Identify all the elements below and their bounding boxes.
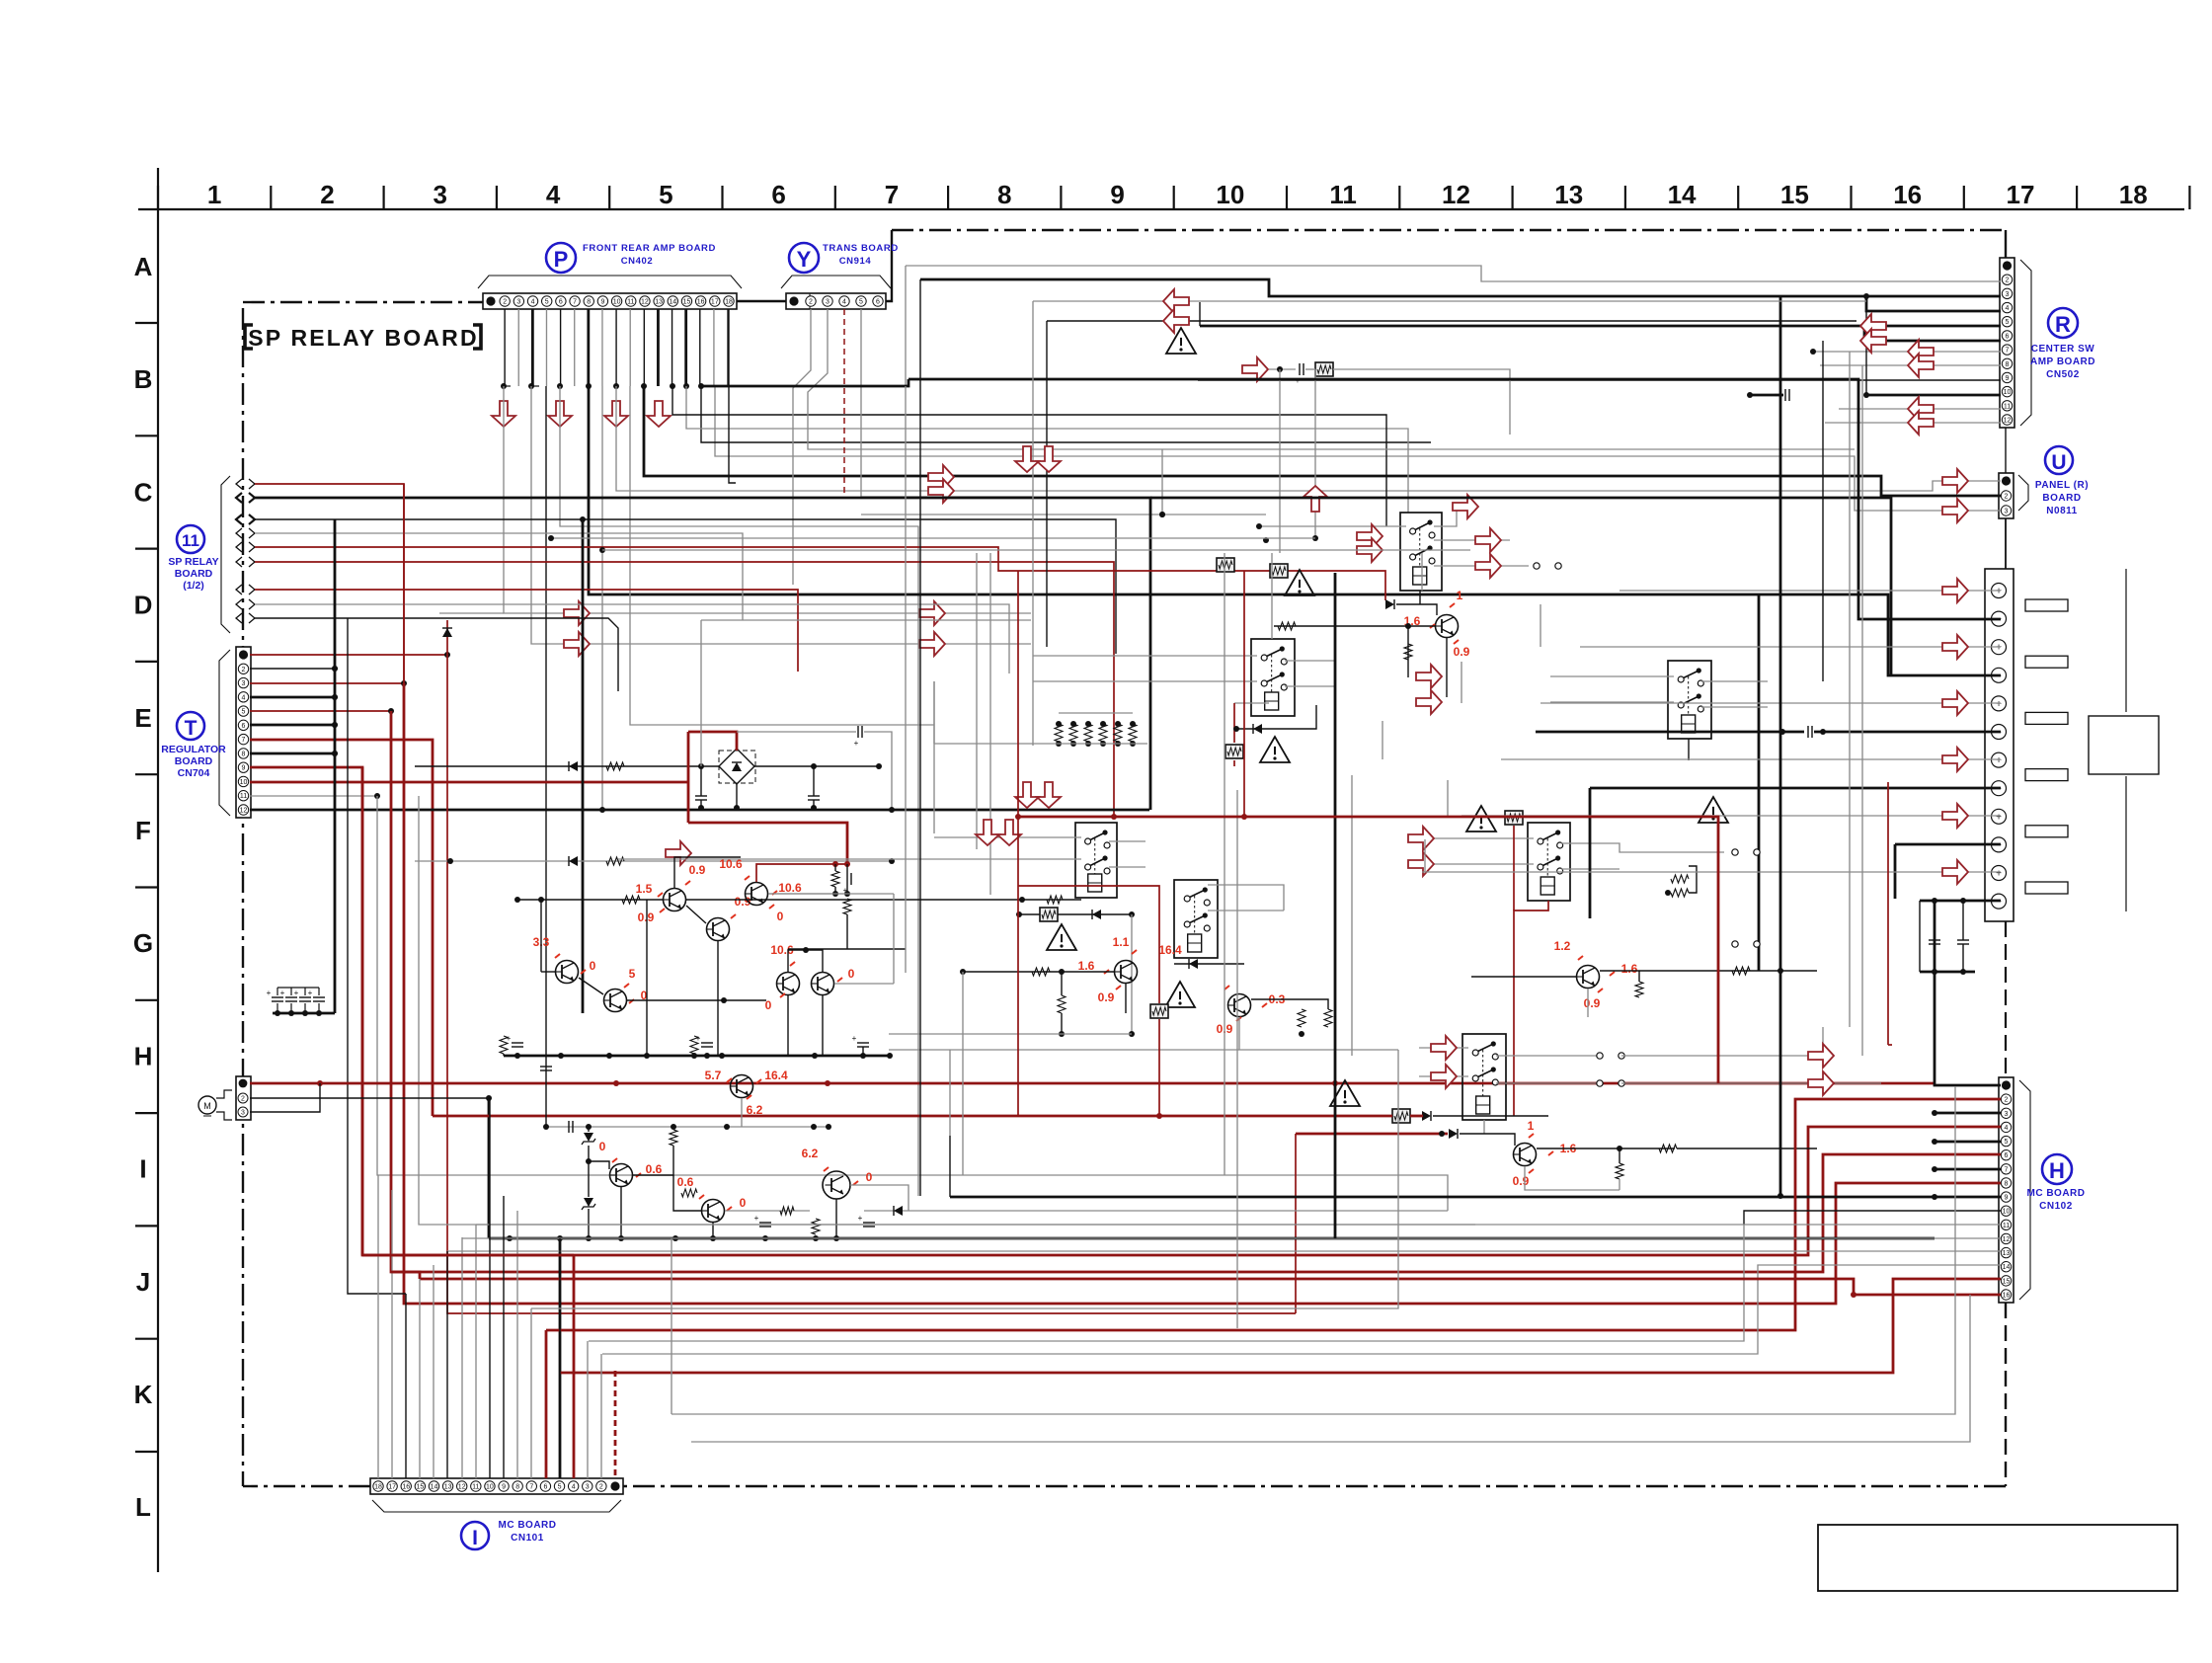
svg-text:SP RELAY: SP RELAY: [168, 556, 218, 568]
svg-text:7: 7: [885, 180, 899, 209]
wire cap R lead: [813, 766, 815, 796]
warn W2: [1166, 328, 1196, 354]
wire T pin4 thick: [250, 696, 335, 699]
wire R pin5 left: [1199, 302, 1201, 326]
svg-text:PANEL (R): PANEL (R): [2035, 480, 2089, 491]
svg-text:0: 0: [599, 1140, 606, 1153]
label U: [2045, 446, 2073, 474]
wire relayG in1: [1419, 1047, 1468, 1049]
diode D-LC: [894, 1206, 903, 1216]
wire cap bank tops: [277, 987, 319, 989]
svg-text:−: −: [1996, 840, 2002, 851]
wire I riser x411: [405, 1294, 407, 1478]
svg-text:1: 1: [1528, 1119, 1535, 1133]
wire cl q5 right: [627, 999, 766, 1001]
svg-text:+: +: [280, 989, 285, 997]
junction spk984: [1932, 969, 1966, 975]
junction T2: [332, 666, 338, 672]
wire vert x1060: [1046, 321, 1048, 647]
wire QG e2: [1619, 1179, 1620, 1190]
junction y827: [1015, 814, 1247, 820]
wire bus black y420: [672, 386, 1386, 526]
capacitor lc4: [863, 1222, 875, 1224]
wire vert x352: [348, 618, 406, 1294]
arrow right rlE1: [1408, 827, 1434, 850]
svg-text:6: 6: [242, 723, 246, 730]
junction M2: [486, 1095, 492, 1101]
resistor QB v: [1058, 995, 1066, 1013]
wire jog2: [532, 385, 539, 387]
svg-text:5: 5: [242, 709, 246, 716]
svg-text:A: A: [134, 252, 153, 281]
capacitor bridge L: [695, 795, 707, 797]
svg-text:−: −: [1996, 897, 2002, 908]
wire I riser x581: [573, 1255, 576, 1478]
svg-text:0: 0: [848, 967, 855, 981]
connector H CN102: [1999, 1077, 2014, 1303]
svg-text:10: 10: [613, 299, 621, 306]
oo pair G2: [1597, 1080, 1603, 1086]
wire H pin15 red: [560, 1279, 2001, 1373]
resistor QH col: [1732, 967, 1750, 975]
svg-text:2: 2: [2005, 494, 2009, 501]
arrow right SPKp6: [1942, 860, 1968, 884]
label 11: [177, 525, 204, 553]
wire bus gray y462: [715, 386, 2001, 511]
wire bus C-row gray: [504, 386, 1031, 613]
svg-text:REGULATOR: REGULATOR: [161, 744, 226, 755]
svg-text:9: 9: [242, 765, 246, 772]
wire QB emit: [1125, 984, 1127, 1013]
svg-text:17: 17: [711, 299, 719, 306]
arrow dd3: [976, 820, 999, 845]
svg-text:3: 3: [2005, 1111, 2009, 1118]
wire 11 pin8 gray: [255, 604, 1009, 673]
bridge rectifier: [719, 751, 755, 783]
wire R pin6 stub: [1863, 326, 1866, 341]
svg-text:0.9: 0.9: [1454, 645, 1470, 659]
wire I riser x496: [489, 1098, 491, 1478]
arrow right SPKp2: [1942, 635, 1968, 659]
arrow right rlA4: [1475, 528, 1501, 552]
junction res row bot: [1056, 741, 1136, 747]
svg-text:+: +: [267, 989, 272, 997]
wire lc q8 base: [589, 1161, 609, 1169]
wire bus gray y497: [616, 386, 2001, 491]
wire H pin14 gray: [602, 1265, 2001, 1354]
fusible FR3: [1225, 745, 1243, 758]
svg-text:5: 5: [558, 1484, 562, 1491]
svg-text:11: 11: [627, 299, 634, 306]
motor M and connector: [236, 1076, 251, 1120]
wire red x396: [391, 711, 2001, 1272]
wire relayE in1: [1412, 837, 1534, 839]
svg-text:1.6: 1.6: [1621, 962, 1638, 976]
svg-text:0.6: 0.6: [646, 1162, 663, 1176]
capacitor spk B: [1957, 939, 1969, 941]
wire I riser x524: [516, 1211, 518, 1478]
wire QA vert: [1407, 626, 1409, 677]
diode D-T1: [442, 628, 452, 637]
wire I riser x425: [419, 1279, 421, 1478]
wire cl q6q7 top: [788, 950, 823, 972]
junction lc top: [543, 1124, 831, 1130]
wire lc z1b: [588, 1146, 590, 1197]
svg-text:M: M: [203, 1101, 211, 1111]
board outline top-right: [892, 229, 2006, 231]
resistor lc4: [780, 1207, 794, 1215]
wire P pin4 drop: [531, 309, 534, 386]
svg-text:CN402: CN402: [621, 256, 654, 267]
svg-text:3: 3: [2006, 291, 2010, 298]
resistor clu1: [831, 871, 839, 887]
wire vert x946: [933, 681, 935, 833]
junction RD: [1665, 890, 1671, 896]
wire I riser x453: [446, 1251, 448, 1478]
wire T pin5 red: [250, 710, 391, 712]
junction res row top: [1056, 721, 1136, 727]
wire R pin12 gray: [1825, 422, 2001, 424]
wire red y1130: [433, 1115, 1392, 1118]
wire H pin13 gray: [447, 1250, 2001, 1252]
junction y926: [1016, 911, 1135, 917]
capacitor spk741: [1807, 726, 1809, 738]
junction x1959: [1932, 1110, 1937, 1200]
junction z: [586, 1158, 592, 1164]
wire spk p4 drop: [1382, 721, 1383, 759]
wire band y1432 gray: [671, 1086, 1955, 1414]
wire thick x495: [488, 1098, 491, 1238]
diode D-F2: [1092, 910, 1101, 919]
svg-text:13: 13: [655, 299, 663, 306]
wire red y1058: [1888, 1044, 1892, 1046]
svg-text:J: J: [136, 1267, 150, 1297]
svg-text:+: +: [1996, 587, 2002, 597]
diode D-row2: [569, 856, 578, 866]
svg-text:+: +: [308, 989, 313, 997]
svg-text:+: +: [1996, 643, 2002, 654]
svg-text:3: 3: [434, 180, 447, 209]
wire clu gray y905: [768, 893, 847, 895]
wire vert x367: [361, 767, 364, 1255]
wire I riser x553: [545, 1330, 548, 1478]
wire clu cap lead: [846, 864, 848, 873]
wire gray y521: [861, 514, 1266, 515]
relay RY-G: [1462, 1034, 1506, 1120]
svg-text:18: 18: [725, 299, 733, 306]
wire SPK m5b: [1888, 787, 2001, 790]
board outline U-SPK link: [2005, 513, 2007, 569]
wire I riser x510: [503, 1196, 505, 1478]
wire spk p3 drop: [1461, 662, 1462, 703]
board outline right-top drop: [2005, 230, 2007, 258]
arrow right g4: [919, 632, 945, 656]
wire R pin5 long: [1200, 325, 2001, 328]
transistor Q2: [707, 918, 730, 941]
fusible FR-B: [1217, 558, 1234, 572]
wire SPK m5 y798: [1590, 787, 1888, 790]
wire cl q7 down: [822, 995, 824, 1056]
wire lc z2b: [588, 1209, 590, 1238]
resistor row 6x: [1055, 724, 1063, 742]
svg-text:+: +: [852, 1034, 857, 1043]
svg-text:11: 11: [182, 531, 199, 550]
board outline P-Y link: [737, 300, 786, 302]
resistor lc1: [670, 1130, 677, 1146]
transistor Q9: [702, 1200, 725, 1223]
arrow left y325: [1163, 309, 1189, 333]
arrow right rlA2: [1357, 538, 1382, 562]
wire gray x1886: [1861, 365, 1863, 1056]
wire H pin10b: [1744, 1211, 2001, 1225]
label I: [461, 1522, 489, 1549]
fusible FR1: [1270, 564, 1288, 578]
diode D-F: [1189, 959, 1198, 969]
wire cl mid: [540, 900, 542, 972]
wire relayB in1: [1033, 655, 1257, 657]
junction T5: [388, 708, 394, 714]
junction H16: [1851, 1292, 1856, 1298]
wire band y1190: [377, 1174, 378, 1176]
wire P pin13 drop: [657, 309, 660, 386]
arrow right SPKp1: [1942, 579, 1968, 602]
svg-text:2: 2: [320, 180, 334, 209]
resistor bridge-in: [606, 762, 624, 770]
wire relayG out2: [1496, 1082, 1600, 1084]
svg-text:16: 16: [1893, 180, 1922, 209]
svg-text:2: 2: [242, 667, 246, 673]
wire QG feed red: [1296, 1133, 1448, 1136]
svg-text:15: 15: [416, 1484, 424, 1491]
wire red x1174b: [1096, 886, 1159, 1003]
junction T6: [332, 722, 338, 728]
wire P pin7 drop: [574, 309, 576, 386]
capacitor clb2: [701, 1042, 713, 1044]
arrow right rlD1: [1416, 665, 1442, 688]
zener Z2: [584, 1198, 593, 1207]
junction relayA: [1159, 512, 1262, 529]
wire 11 pin7 red: [255, 590, 798, 672]
capacitor clu1: [846, 873, 848, 885]
wire H pin3 stub: [1935, 1112, 2001, 1115]
wire SPK m3: [1150, 498, 1891, 675]
wire SPK m7 y912: [1920, 900, 2001, 903]
svg-text:3: 3: [826, 299, 829, 306]
wire R pin10 left: [1775, 394, 1783, 397]
svg-text:18: 18: [374, 1484, 382, 1491]
wire R vert x1890: [1865, 311, 1867, 395]
wire x567 thick: [559, 1238, 562, 1478]
wire relayE out2: [1561, 868, 1619, 870]
transistor Q8: [610, 1164, 633, 1187]
svg-text:P: P: [554, 247, 569, 272]
svg-text:L: L: [135, 1492, 151, 1522]
junction R10: [1747, 392, 1869, 398]
wire T pin11 gray: [250, 795, 377, 797]
wire relayC out2: [1109, 866, 1145, 868]
wire QA emitter: [1446, 638, 1448, 697]
wire cl q7 right: [834, 983, 894, 985]
wire R pin11 gray: [1839, 408, 2001, 410]
wire bridge topline2: [864, 732, 892, 808]
wire spk capB: [1962, 901, 1964, 940]
svg-text:1.1: 1.1: [1113, 935, 1130, 949]
resistor cl1: [622, 896, 640, 904]
wire SPK m1b: [908, 379, 2001, 619]
arrow left R7: [1908, 340, 1934, 363]
svg-text:+: +: [1996, 699, 2002, 710]
svg-text:CN101: CN101: [511, 1533, 544, 1544]
junction relayB diode: [1233, 726, 1239, 732]
svg-text:14: 14: [669, 299, 676, 306]
junction y911: [1019, 897, 1025, 903]
svg-text:0: 0: [866, 1170, 873, 1184]
svg-text:6: 6: [2005, 1152, 2009, 1159]
capacitor lc top: [568, 1121, 570, 1133]
wire QG feed red vert: [1295, 1134, 1297, 1313]
junction QG feed: [1439, 1131, 1445, 1137]
svg-text:U: U: [2051, 451, 2066, 474]
wire relayA in1: [1259, 525, 1406, 527]
svg-text:+: +: [754, 1214, 759, 1223]
wire cl res mid: [1022, 899, 1081, 901]
wire relayE coil red: [1514, 901, 1548, 1116]
svg-text:8: 8: [515, 1484, 519, 1491]
svg-text:12: 12: [2003, 1236, 2011, 1243]
svg-text:4: 4: [572, 1484, 576, 1491]
junction y545: [548, 535, 605, 553]
wire lc q9 right: [725, 1210, 810, 1212]
svg-text:+: +: [1996, 755, 2002, 766]
svg-text:7: 7: [2005, 1166, 2009, 1173]
svg-text:C: C: [134, 477, 153, 507]
svg-text:2: 2: [241, 1096, 245, 1103]
contact pair A3: [1534, 563, 1540, 569]
wire relayD in2: [1550, 701, 1674, 703]
transistor Q4: [556, 961, 579, 984]
svg-text:AMP BOARD: AMP BOARD: [2030, 356, 2095, 367]
svg-text:5: 5: [2006, 319, 2010, 326]
wire red bus y827: [1018, 817, 1718, 1083]
wire drop x738: [729, 309, 736, 483]
wire QH base: [1471, 976, 1576, 978]
svg-text:9: 9: [2006, 375, 2010, 382]
svg-text:1.5: 1.5: [636, 882, 653, 896]
wire lc top: [546, 1126, 829, 1128]
wire red x409: [403, 484, 405, 683]
wire QG base: [1460, 1134, 1515, 1146]
transistor Q1: [664, 889, 686, 911]
svg-text:12: 12: [458, 1484, 466, 1491]
arrow left R12: [1908, 411, 1934, 435]
svg-text:3: 3: [516, 299, 520, 306]
wire relayB coil red2: [1233, 760, 1235, 766]
svg-text:N0811: N0811: [2046, 506, 2077, 516]
svg-text:T: T: [185, 717, 197, 740]
svg-text:H: H: [2049, 1158, 2065, 1183]
wire T pin12 thick long: [250, 809, 1149, 812]
arrow right d1: [928, 465, 954, 489]
wire vert x1046 up: [1032, 301, 1034, 613]
wire bus black y448: [701, 386, 1431, 442]
board outline top-left: [243, 301, 483, 303]
wire Y pin2 drop: [793, 309, 811, 585]
capacitor clb3: [857, 1042, 869, 1044]
wire T pin3 red: [250, 682, 404, 684]
wire cl q6 down: [787, 995, 789, 1056]
wire R pin7 gray: [1813, 351, 2001, 353]
wire QC col2: [1302, 999, 1328, 1009]
fusible FR-G2: [1505, 811, 1523, 825]
wire y305 gray: [1033, 300, 1866, 302]
wire R pin9: [1198, 379, 2001, 381]
wire I riser x468: [461, 1237, 463, 1478]
wire gray x1873: [1849, 352, 1851, 1027]
svg-text:15: 15: [683, 299, 691, 306]
wire M pin1 red bus: [250, 1082, 1935, 1085]
wire lc z1: [588, 1127, 590, 1132]
wire vert x917 low: [905, 386, 907, 973]
svg-text:4: 4: [842, 299, 846, 306]
resistor QA base: [1278, 622, 1296, 630]
svg-text:16: 16: [2003, 1293, 2011, 1300]
svg-text:0.9: 0.9: [1584, 996, 1601, 1010]
wire SPK m5 left: [1589, 788, 1592, 918]
svg-text:10.6: 10.6: [719, 857, 743, 871]
svg-text:13: 13: [444, 1484, 452, 1491]
svg-text:B: B: [134, 364, 153, 394]
wire 11 pin4 gray: [255, 533, 743, 620]
arrow left y305: [1163, 289, 1189, 313]
wire relayG out1b: [1621, 1027, 1823, 1056]
wire relayG out2b: [1621, 1082, 1881, 1084]
wire lc q8 down: [620, 1187, 622, 1238]
wire lc q10 right: [850, 1185, 908, 1211]
warn W9: [1330, 1080, 1360, 1106]
junction cluster bus: [514, 1053, 893, 1059]
svg-text:3: 3: [586, 1484, 590, 1491]
wire res row feed: [933, 681, 935, 744]
wire T pin10 red long: [250, 781, 688, 784]
wire H pin7 stub: [1935, 1168, 2001, 1171]
transistor Q5: [604, 990, 627, 1012]
wire bus C2 gray: [531, 386, 1031, 644]
wire bridge right: [754, 765, 879, 767]
junction T8: [332, 751, 338, 756]
transistor Q10: [823, 1171, 850, 1199]
label R: [2048, 308, 2078, 338]
wire H pin16 red: [1854, 1294, 2001, 1297]
wire gray y628: [701, 619, 1031, 621]
board outline SPK-H link: [2005, 921, 2007, 1077]
wire band y1358-ext: [587, 1340, 589, 1342]
arrow left R8: [1908, 354, 1934, 377]
svg-text:5: 5: [659, 180, 672, 209]
svg-text:15: 15: [1780, 180, 1809, 209]
wire cl base4: [541, 971, 555, 973]
svg-text:11: 11: [240, 793, 247, 800]
junction spk741: [1779, 729, 1826, 735]
wire band x680: [671, 1238, 672, 1414]
wire relayG in2: [1419, 1075, 1468, 1077]
wire clu res leads: [834, 864, 836, 871]
svg-text:+: +: [294, 989, 299, 997]
wire relayB top feed: [1271, 553, 1273, 639]
wire vert x1003: [989, 553, 991, 895]
wire 11 pin5 red: [255, 547, 1385, 600]
arrow down P4: [647, 401, 671, 427]
wire bus C-row ext: [439, 612, 504, 614]
